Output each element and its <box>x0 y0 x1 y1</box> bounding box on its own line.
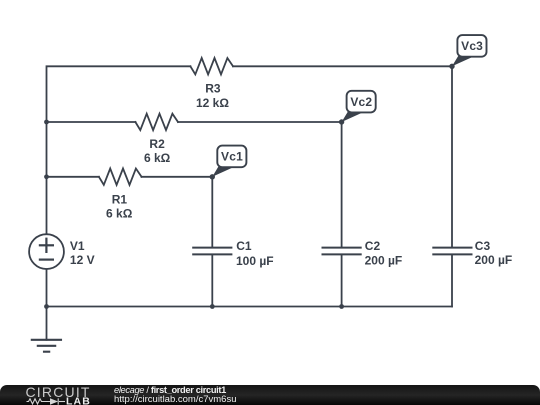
footer bar <box>0 385 540 405</box>
CircuitLab logo <box>24 385 124 405</box>
node label Vc1 <box>217 146 246 168</box>
svg-text:Vc2: Vc2 <box>350 95 372 109</box>
wire: node Vc3 down to C3 top plate <box>451 66 453 247</box>
svg-text:6 kΩ: 6 kΩ <box>144 151 171 165</box>
svg-text:R2: R2 <box>149 137 165 151</box>
node Vc1 dot <box>210 174 215 179</box>
wire: R2 right terminal to node Vc2 <box>178 121 342 123</box>
node Vc1 flag pointer <box>212 166 233 176</box>
node label Vc3 <box>457 35 486 57</box>
junction: left rail / lower rail <box>44 174 49 179</box>
wire: R1 right terminal to node Vc1 <box>142 176 213 178</box>
wire: R3 right terminal to node Vc3 <box>233 65 452 67</box>
wire: C1 bottom plate to bottom rail <box>211 254 213 306</box>
capacitor C2 <box>323 248 361 255</box>
svg-text:R1: R1 <box>112 193 128 207</box>
svg-text:200 µF: 200 µF <box>475 253 513 267</box>
svg-text:R3: R3 <box>205 82 221 96</box>
svg-text:Vc3: Vc3 <box>461 39 483 53</box>
wire: node Vc1 down to C1 top plate <box>211 177 213 248</box>
wire: node Vc2 down to C2 top plate <box>341 122 343 248</box>
wire: V1 minus terminal to bottom rail <box>46 269 48 306</box>
wire: left rail to R2 (middle rail) <box>47 121 136 123</box>
node label Vc2 <box>347 91 376 113</box>
ground <box>32 307 61 352</box>
wire: bottom ground rail <box>47 306 453 308</box>
resistor R3 <box>190 58 233 74</box>
svg-text:Vc1: Vc1 <box>221 150 243 164</box>
node Vc3 dot <box>449 64 454 69</box>
svg-text:200 µF: 200 µF <box>365 254 403 268</box>
svg-text:V1: V1 <box>70 239 85 253</box>
svg-text:C2: C2 <box>365 239 381 253</box>
resistor R1 <box>99 169 142 185</box>
svg-text:100 µF: 100 µF <box>236 254 274 268</box>
svg-text:C1: C1 <box>236 239 252 253</box>
junction: bottom rail / ground <box>44 304 49 309</box>
node Vc2 dot <box>339 119 344 124</box>
wire: C2 bottom plate to bottom rail <box>341 254 343 306</box>
node Vc2 flag pointer <box>342 112 363 122</box>
svg-text:6 kΩ: 6 kΩ <box>106 206 133 220</box>
capacitor C1 <box>193 248 231 255</box>
node Vc3 flag pointer <box>452 56 473 66</box>
svg-text:C3: C3 <box>475 239 491 253</box>
wire: left rail top corner to R3 (top rail) <box>47 66 191 122</box>
resistor R2 <box>135 114 178 130</box>
wire: C3 bottom plate to bottom rail corner <box>451 254 453 306</box>
footer url text <box>114 395 237 405</box>
junction: C2 / bottom rail <box>339 304 344 309</box>
wire: left rail down to R1 row and to R1 left terminal <box>47 122 99 177</box>
capacitor C3 <box>433 248 471 255</box>
footer title text <box>114 385 226 395</box>
wire: left rail down to V1 plus terminal <box>46 177 48 234</box>
V1 minus sign <box>40 259 53 261</box>
junction: left rail / middle rail <box>44 120 49 125</box>
voltage source V1 (circle) <box>29 234 64 269</box>
svg-text:LAB: LAB <box>66 395 91 405</box>
svg-text:12 kΩ: 12 kΩ <box>196 96 229 110</box>
svg-text:12 V: 12 V <box>70 253 95 267</box>
junction: C1 / bottom rail <box>210 304 215 309</box>
V1 plus sign <box>40 239 53 252</box>
